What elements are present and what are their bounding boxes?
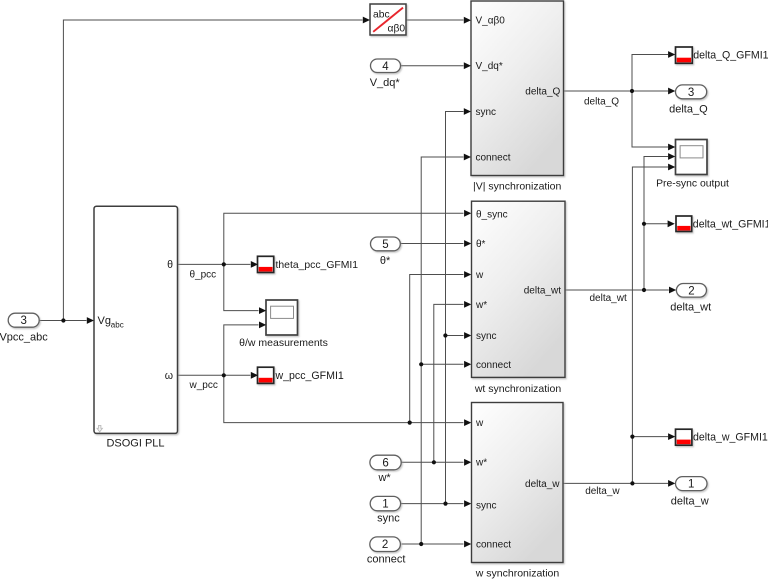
scope theta/w measurements [266, 300, 298, 335]
node delta_Q split [630, 89, 634, 93]
arrowhead theta* [464, 240, 471, 247]
port input 2 connect [370, 537, 401, 552]
svg-text:Pre-sync output: Pre-sync output [656, 179, 729, 190]
arrowhead dQ gfmi [668, 51, 675, 58]
wire delta_w to scope in3 [632, 167, 668, 483]
subsystem |V| synchronization [471, 1, 564, 176]
node w* riser split [432, 460, 436, 464]
arrowhead wt w* [464, 301, 471, 308]
arrowhead scope1 in1 [259, 307, 266, 314]
wire theta_pcc [177, 263, 250, 265]
node connect riser split [419, 542, 423, 546]
port input 4 V_dq* [371, 59, 401, 73]
wire port6 to w-sync w* [401, 461, 463, 463]
arrowhead dwt gfmi [668, 220, 675, 227]
arrowhead Vsync connect [464, 154, 471, 161]
subsystem DSOGI PLL [94, 206, 178, 433]
wire sync riser [446, 112, 464, 504]
wire delta_wt out [565, 289, 669, 291]
node theta split [222, 262, 226, 266]
wire connect to wt-sync [421, 363, 463, 365]
svg-text:w_pcc_GFMI1: w_pcc_GFMI1 [275, 370, 344, 382]
svg-text:1: 1 [688, 479, 694, 491]
wire w to w-sync w [224, 375, 464, 422]
svg-text:w: w [475, 270, 484, 281]
block w_pcc_GFMI1 [258, 367, 274, 383]
svg-text:3: 3 [20, 315, 26, 327]
arrowhead wsync sync [464, 500, 471, 507]
scope Pre-sync output [676, 140, 708, 175]
wire w* branch to wt-sync w* [434, 304, 464, 462]
svg-text:sync: sync [377, 513, 400, 525]
svg-text:θ_pcc: θ_pcc [190, 270, 217, 281]
svg-text:θ_sync: θ_sync [476, 209, 508, 220]
svg-text:delta_wt: delta_wt [524, 285, 561, 296]
wire port4 to V_dq* [401, 65, 464, 67]
svg-text:ω: ω [165, 370, 173, 382]
svg-text:delta_wt_GFMI1: delta_wt_GFMI1 [693, 219, 768, 231]
arrowhead w gfmi [251, 372, 258, 379]
svg-text:|V| synchronization: |V| synchronization [473, 181, 561, 193]
port input 6 w* [370, 455, 401, 470]
port input 3 Vpcc_abc [8, 313, 39, 327]
wire w_pcc [177, 374, 250, 376]
wire connect riser [421, 157, 463, 544]
svg-text:2: 2 [382, 539, 388, 551]
svg-text:w_pcc: w_pcc [189, 380, 218, 391]
svg-text:delta_Q: delta_Q [525, 87, 560, 98]
svg-text:delta_w: delta_w [585, 486, 620, 497]
svg-text:abc: abc [111, 321, 124, 330]
svg-text:sync: sync [476, 107, 497, 118]
arrowhead scope2 in3 [668, 164, 675, 171]
arrowhead into abc block [363, 17, 370, 24]
svg-text:w*: w* [475, 300, 487, 311]
wire sync to wt-sync [445, 335, 463, 337]
svg-text:connect: connect [476, 360, 511, 371]
svg-text:V_dq*: V_dq* [370, 77, 401, 89]
svg-text:1: 1 [382, 499, 388, 511]
node w split [222, 373, 226, 377]
wire theta to scope1 [224, 264, 259, 310]
arrowhead wt sync [464, 332, 471, 339]
wire w to scope2 [224, 325, 259, 375]
node delta_w split [630, 481, 634, 485]
svg-text:V_αβ0: V_αβ0 [476, 16, 506, 27]
svg-text:DSOGI PLL: DSOGI PLL [106, 437, 164, 449]
block abc->alphabeta0 transform [370, 4, 406, 35]
svg-text:Vg: Vg [98, 315, 111, 327]
svg-text:w synchronization: w synchronization [475, 568, 560, 580]
wire delta_wt to scope in2 [644, 157, 668, 291]
block delta_Q_GFMI1 [676, 47, 693, 63]
svg-text:6: 6 [382, 458, 388, 470]
subsystem w synchronization [472, 403, 564, 563]
svg-text:αβ0: αβ0 [388, 23, 406, 34]
svg-text:theta_pcc_GFMI1: theta_pcc_GFMI1 [276, 260, 359, 271]
arrowhead V_dq* [464, 62, 471, 69]
node delta_wt gfmi tap [642, 222, 646, 226]
node Vpcc split [61, 318, 65, 322]
svg-text:3: 3 [688, 87, 694, 99]
svg-text:Vpcc_abc: Vpcc_abc [0, 332, 48, 344]
svg-text:delta_w: delta_w [671, 495, 709, 507]
subsystem wt synchronization [472, 201, 566, 377]
block delta_wt_GFMI1 [676, 216, 692, 232]
svg-text:delta_Q: delta_Q [669, 103, 708, 115]
arrowhead wt connect [464, 361, 471, 368]
annotation badge [97, 425, 102, 432]
arrowhead scope2 in2 [668, 153, 675, 160]
svg-text:delta_w: delta_w [525, 479, 560, 490]
svg-text:connect: connect [367, 554, 406, 566]
svg-text:sync: sync [476, 331, 497, 342]
arrowhead into Vg_abc [87, 317, 94, 324]
arrowhead theta gfmi [251, 261, 258, 268]
wire Vpcc_abc net [40, 20, 363, 321]
arrowhead port2 out [669, 287, 676, 294]
wire delta_w out [563, 482, 668, 484]
wire abc out to V_ab0 [406, 19, 464, 21]
wire delta_wt to gfmi [644, 223, 668, 225]
svg-text:w*: w* [475, 457, 487, 468]
arrowhead wt w [464, 271, 471, 278]
svg-text:4: 4 [382, 61, 389, 73]
arrowhead wsync w [464, 419, 471, 426]
port input 5 theta* [371, 237, 401, 251]
svg-text:V_dq*: V_dq* [476, 61, 503, 72]
block delta_w_GFMI1 [676, 429, 692, 445]
block theta_pcc_GFMI1 [258, 256, 274, 272]
port output 2 delta_wt [676, 284, 706, 298]
wire port2 connect to w-sync [402, 543, 464, 545]
svg-text:delta_wt: delta_wt [670, 302, 711, 314]
arrowhead port3 out [668, 88, 675, 95]
wire delta_Q to scope in1 [632, 91, 668, 147]
svg-text:sync: sync [476, 500, 497, 511]
svg-text:delta_w_GFMI1: delta_w_GFMI1 [693, 431, 768, 443]
svg-text:abc: abc [373, 10, 390, 21]
svg-text:θ*: θ* [476, 239, 486, 250]
svg-text:θ: θ [167, 259, 173, 271]
svg-text:w: w [475, 418, 484, 429]
wire port5 to theta* [400, 243, 463, 245]
arrowhead wsync connect [464, 541, 471, 548]
svg-text:wt synchronization: wt synchronization [474, 383, 562, 395]
node delta_w gfmi tap [630, 435, 634, 439]
svg-text:w*: w* [377, 472, 391, 484]
svg-text:θ*: θ* [380, 255, 391, 267]
arrowhead scope1 in2 [259, 322, 266, 329]
arrowhead port1 out [668, 480, 675, 487]
arrowhead Vsync sync [464, 108, 471, 115]
arrowhead wsync w* [464, 459, 471, 466]
node sync riser split [443, 502, 447, 506]
port input 1 sync [370, 496, 400, 510]
svg-text:5: 5 [382, 239, 388, 251]
svg-text:delta_Q: delta_Q [584, 96, 619, 107]
svg-text:2: 2 [688, 285, 694, 297]
node sync wt tap [443, 333, 447, 337]
wire delta_Q to gfmi [632, 55, 668, 92]
wire w branch to wt-sync w [410, 275, 464, 423]
wire theta to theta_sync [224, 213, 464, 264]
arrowhead theta_sync [464, 210, 471, 217]
svg-text:connect: connect [476, 540, 511, 551]
node connect wt tap [419, 362, 423, 366]
wire delta_w to gfmi [632, 436, 668, 438]
port output 1 delta_w [676, 477, 708, 491]
svg-text:delta_wt: delta_wt [590, 293, 627, 304]
svg-text:θ/w measurements: θ/w measurements [239, 337, 328, 349]
arrowhead scope2 in1 [668, 144, 675, 151]
svg-text:delta_Q_GFMI1: delta_Q_GFMI1 [693, 49, 768, 61]
svg-text:connect: connect [476, 153, 511, 164]
arrowhead dw gfmi [668, 433, 675, 440]
arrowhead V_ab0 [464, 17, 471, 24]
node w riser split [408, 421, 412, 425]
wire delta_Q out [564, 90, 669, 92]
port output 3 delta_Q [676, 85, 707, 99]
wire port1 sync to w-sync [401, 503, 464, 505]
node delta_wt split [642, 288, 646, 292]
